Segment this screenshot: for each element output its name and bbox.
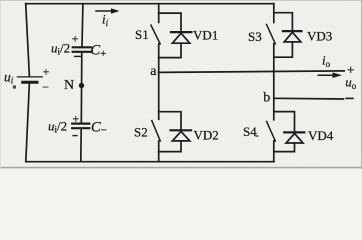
wire: capacitor branch middle [80, 53, 83, 123]
label C- [91, 119, 107, 136]
wire: S4 branch top [274, 112, 295, 132]
svg-text:ui/2: ui/2 [51, 41, 70, 57]
wire: VD3 branch top [274, 13, 293, 31]
diode VD2 [171, 130, 192, 141]
wire: left leg lower [158, 141, 160, 162]
label uo [345, 75, 357, 91]
current arrow io [318, 72, 342, 78]
svg-text:ui/2: ui/2 [48, 119, 67, 135]
svg-text:VD3: VD3 [307, 28, 332, 43]
wire: left leg a-to-S2 [158, 72, 160, 119]
wire: bottom DC bus [26, 161, 274, 163]
label S3 [248, 29, 262, 44]
wire: capacitor branch lower [80, 129, 82, 162]
svg-text:−: − [42, 80, 49, 94]
wire: S3 upper stub [273, 4, 275, 23]
svg-text:+: + [72, 112, 79, 126]
wire: left leg S1-to-a [158, 44, 160, 73]
label - (source polarity) [42, 80, 49, 94]
svg-text:a: a [150, 64, 157, 79]
svg-text:+: + [72, 32, 79, 46]
label ii [102, 12, 109, 28]
svg-text:VD4: VD4 [308, 128, 334, 143]
label S2 [134, 125, 148, 140]
wire: top DC bus [26, 3, 274, 5]
wire: right leg S3-to-b [273, 44, 275, 99]
label ui (source) [4, 70, 14, 86]
wire: capacitor branch upper [81, 4, 84, 47]
label VD4 [308, 128, 334, 143]
svg-text:b: b [263, 91, 270, 106]
label VD3 [307, 28, 332, 43]
switch S3 blade [267, 25, 276, 44]
svg-text:S1: S1 [135, 27, 149, 42]
diode VD4 [284, 132, 304, 143]
svg-text:S3: S3 [248, 29, 262, 44]
voltage source ui (battery) [17, 77, 42, 82]
label - (output polarity) [345, 97, 354, 99]
label io [322, 53, 331, 70]
wire: output line b [274, 97, 344, 100]
switch S2 blade [152, 121, 161, 141]
wire: left source branch upper [26, 4, 30, 77]
svg-text:VD1: VD1 [193, 28, 218, 43]
label S4 [243, 124, 258, 139]
wire: S2 branch top [159, 112, 181, 130]
svg-text:VD2: VD2 [194, 127, 219, 142]
diode VD1 [171, 32, 191, 43]
svg-text:N: N [64, 78, 74, 93]
switch S1 blade [151, 25, 160, 44]
label node a [150, 64, 157, 79]
current arrow ii [96, 8, 120, 14]
wire: right leg b-to-S4 [273, 98, 275, 120]
label ui/2 (upper) [51, 41, 70, 57]
wire: VD1 branch bottom [159, 43, 181, 57]
label ui/2 (lower) [48, 119, 67, 135]
label - (C- polarity) [72, 135, 77, 137]
svg-text:+: + [43, 65, 50, 79]
capacitor C- [72, 124, 89, 129]
label C+ [91, 42, 107, 60]
diode VD3 [283, 31, 302, 42]
node N [79, 83, 84, 88]
wire: left source branch lower [26, 83, 30, 162]
wire: S1 upper stub [158, 4, 160, 23]
svg-text:S4: S4 [243, 124, 257, 139]
svg-text:S2: S2 [134, 125, 148, 140]
wire: output line a [159, 71, 345, 73]
wire: VD3 branch bottom [274, 42, 293, 57]
label VD1 [193, 28, 218, 43]
label VD2 [194, 127, 219, 142]
wire: VD4 branch bottom [274, 143, 295, 152]
label + (source polarity) [43, 65, 50, 79]
switch S4 blade [267, 122, 276, 142]
label node b [263, 91, 270, 106]
label N [64, 78, 74, 93]
wire: right leg lower [273, 141, 275, 162]
label - (C+ polarity) [74, 55, 82, 57]
label S1 [135, 27, 149, 42]
wire: VD2 branch bottom [159, 141, 181, 152]
label + (C- polarity) [72, 112, 79, 126]
label + (C+ polarity) [72, 32, 79, 46]
capacitor C+ [73, 47, 91, 52]
label + (output polarity) [347, 63, 355, 78]
wire: VD1 branch top [159, 13, 181, 31]
